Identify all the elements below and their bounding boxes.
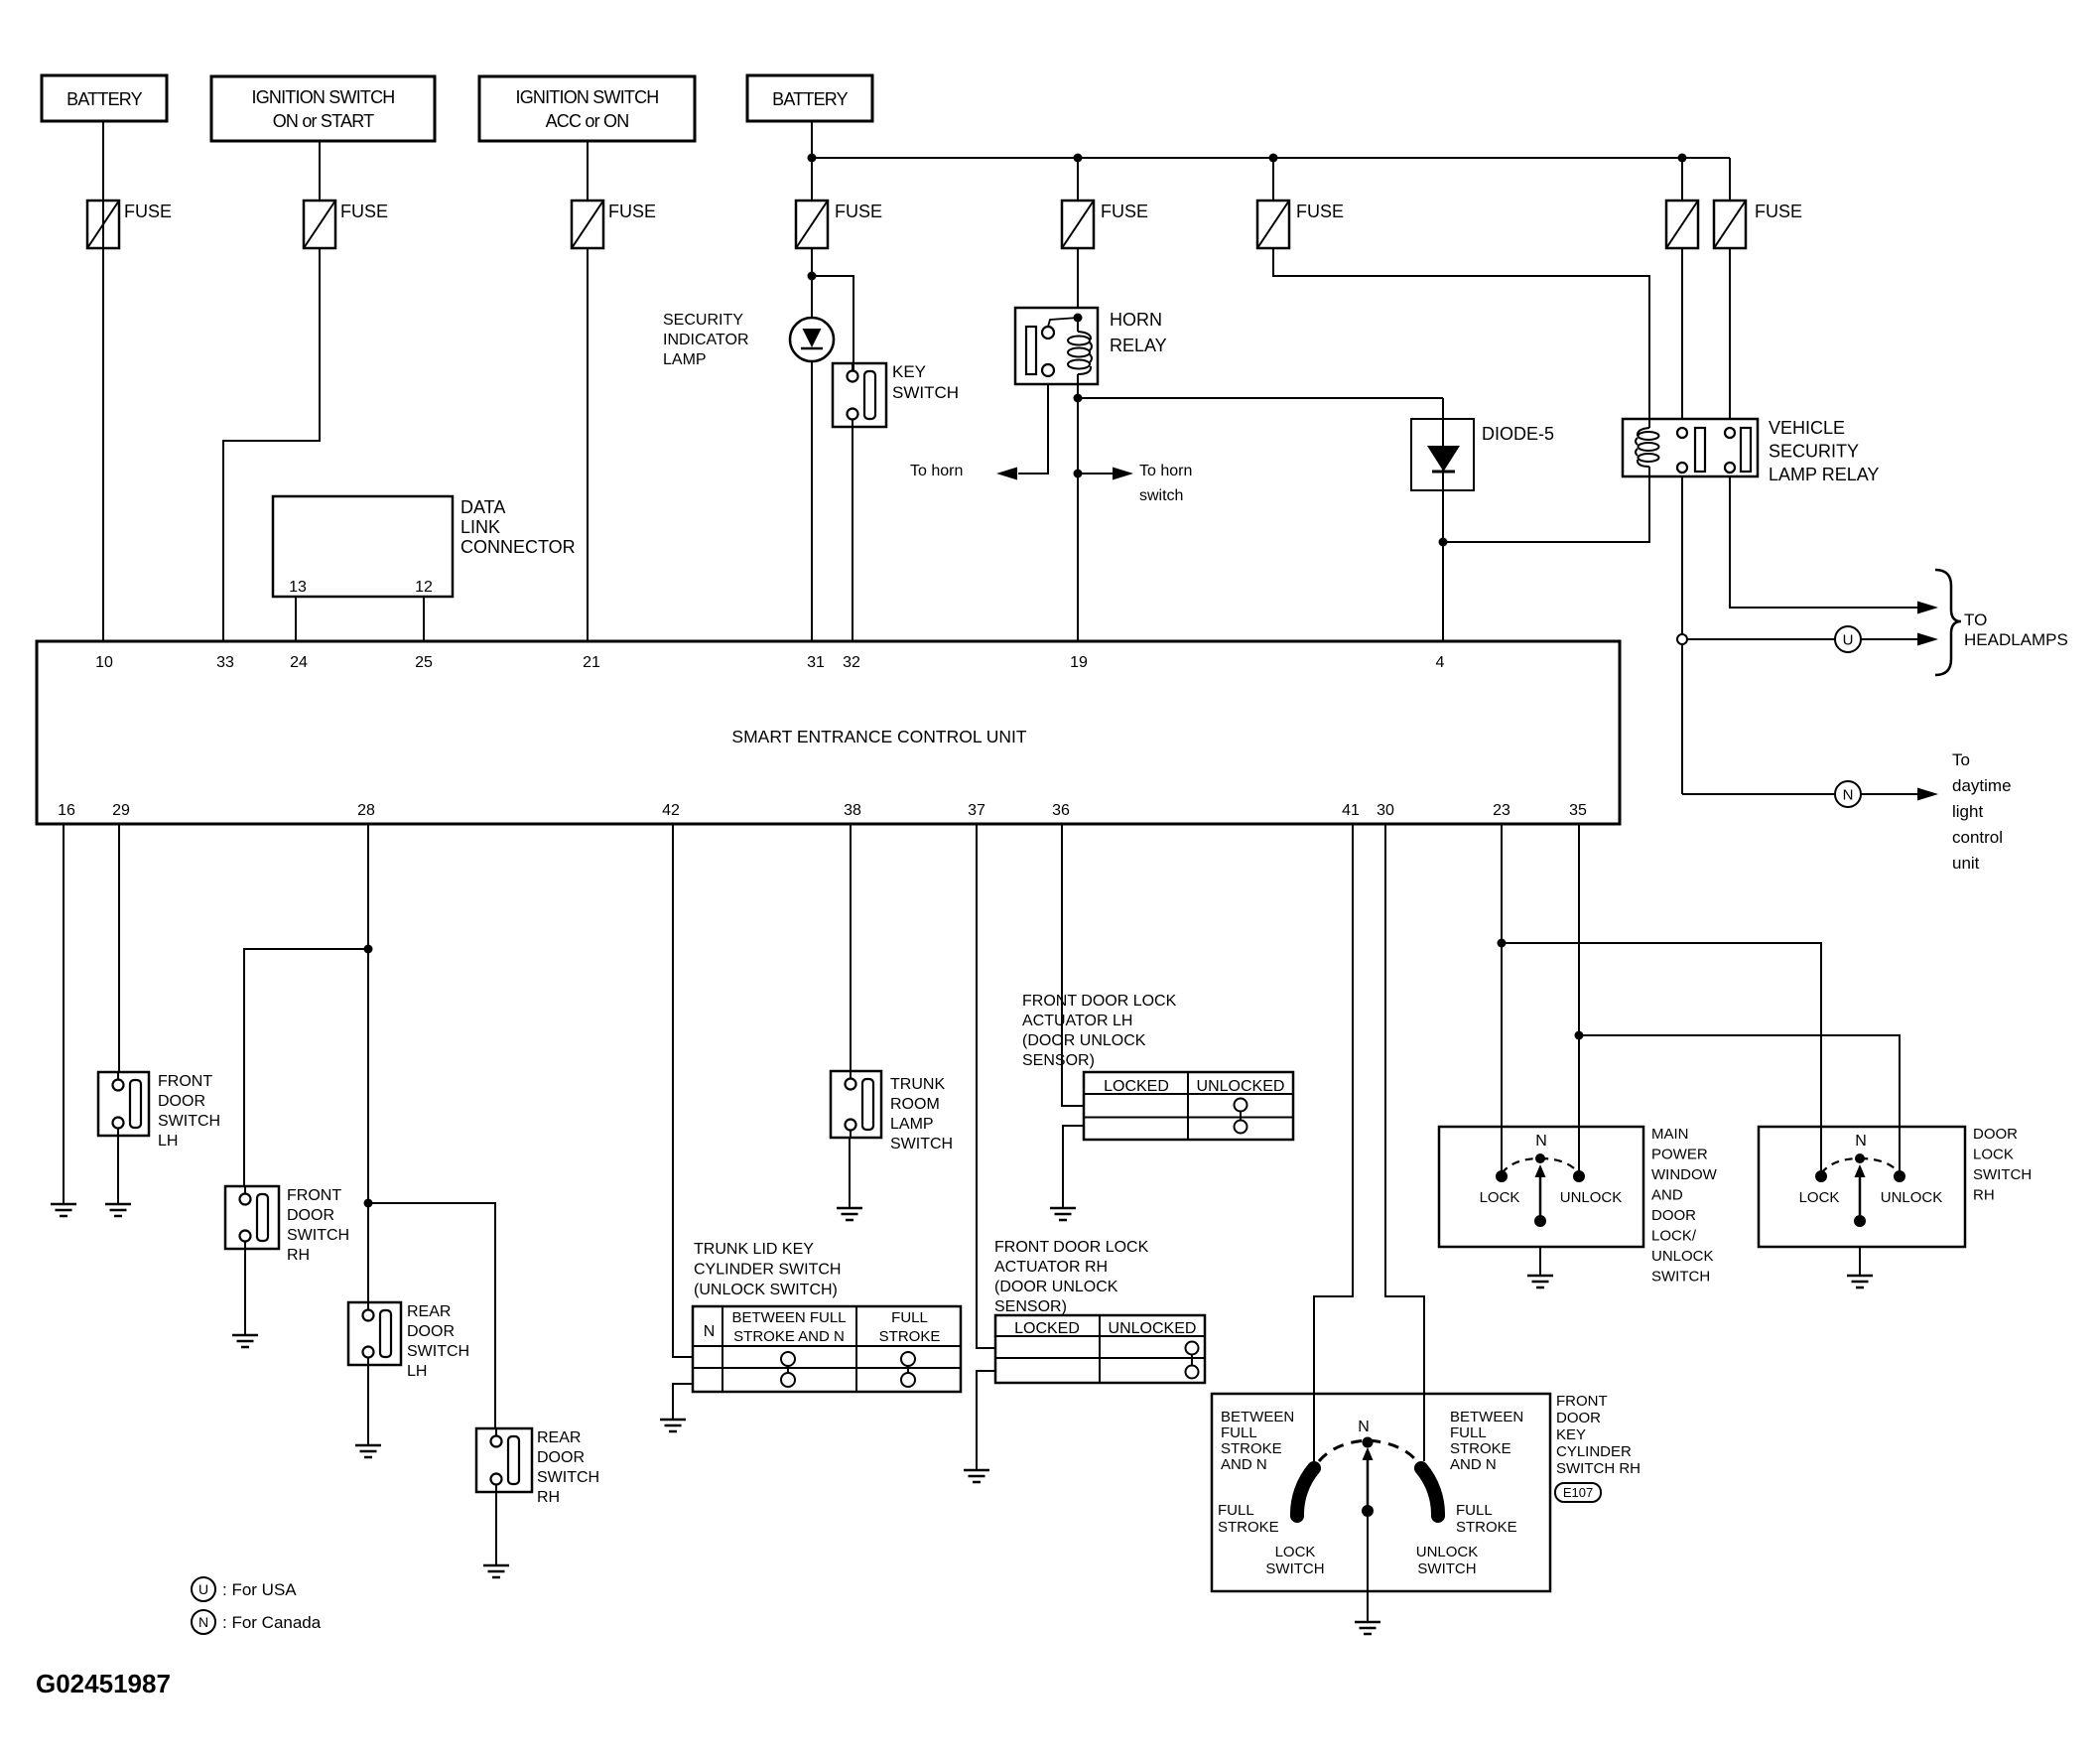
- wire node F to front door switch RH: [244, 949, 368, 1186]
- front door switch RH: [225, 1186, 279, 1249]
- svg-text:LH: LH: [158, 1133, 178, 1150]
- wire pin 41 into key cylinder (lock side): [1314, 824, 1353, 1461]
- wire N badge to arrow: [1861, 793, 1917, 795]
- svg-text:FRONT: FRONT: [158, 1073, 212, 1090]
- svg-text:MAIN: MAIN: [1651, 1126, 1689, 1143]
- wire relay contact1 to node E: [1681, 476, 1683, 634]
- svg-text:STROKE: STROKE: [1450, 1440, 1511, 1457]
- diode-5 D1 box: [1411, 419, 1474, 490]
- smart entrance control unit box: [37, 641, 1620, 824]
- wire horn relay contact to To-horn arrow: [1018, 384, 1048, 474]
- connector badge E107: [1555, 1483, 1601, 1502]
- node C junction (to horn switch tap): [1074, 470, 1083, 478]
- svg-text:LAMP RELAY: LAMP RELAY: [1769, 465, 1879, 484]
- svg-text:DOOR: DOOR: [537, 1449, 585, 1466]
- svg-text:38: 38: [844, 802, 861, 819]
- svg-text:10: 10: [95, 654, 113, 671]
- front door switch LH: [98, 1072, 149, 1136]
- ground (rear door switch LH): [355, 1444, 381, 1447]
- trunk lid key cylinder switch state table: [693, 1306, 961, 1392]
- svg-text:AND N: AND N: [1450, 1456, 1497, 1473]
- ground (key cylinder switch): [1355, 1621, 1380, 1624]
- svg-text:N: N: [704, 1323, 716, 1340]
- svg-text:FRONT DOOR LOCK: FRONT DOOR LOCK: [994, 1239, 1149, 1256]
- svg-text:E107: E107: [1563, 1485, 1593, 1500]
- svg-text:FUSE: FUSE: [1755, 202, 1802, 221]
- svg-text:G02451987: G02451987: [36, 1669, 171, 1698]
- svg-text:FUSE: FUSE: [835, 202, 882, 221]
- svg-text:HEADLAMPS: HEADLAMPS: [1964, 630, 2068, 649]
- svg-text:VEHICLE: VEHICLE: [1769, 418, 1845, 438]
- svg-text:BETWEEN: BETWEEN: [1221, 1409, 1294, 1425]
- trunk room lamp switch: [831, 1071, 881, 1138]
- selector arrow (key cylinder): [1367, 1459, 1370, 1506]
- node B junction (horn relay coil / diode feed): [1074, 394, 1083, 403]
- wire node E to U badge: [1687, 638, 1835, 640]
- svg-text:SWITCH: SWITCH: [287, 1227, 349, 1244]
- svg-text:RH: RH: [537, 1489, 560, 1506]
- contact pair trunk col3: [901, 1352, 915, 1366]
- svg-text:(DOOR UNLOCK: (DOOR UNLOCK: [1022, 1032, 1146, 1049]
- arrow to daytime light control unit: [1917, 788, 1938, 801]
- svg-text:37: 37: [968, 802, 985, 819]
- wire key cylinder common to ground: [1367, 1517, 1369, 1622]
- svg-text:DOOR: DOOR: [1973, 1126, 2018, 1143]
- svg-text:: For Canada: : For Canada: [222, 1613, 322, 1632]
- wire main power window switch to ground: [1539, 1247, 1541, 1276]
- fuse F7: [1666, 201, 1698, 248]
- svg-text:STROKE: STROKE: [1456, 1519, 1517, 1536]
- svg-text:N: N: [1843, 786, 1854, 803]
- svg-text:SWITCH: SWITCH: [1973, 1166, 2032, 1183]
- svg-text:BETWEEN: BETWEEN: [1450, 1409, 1523, 1425]
- wire battery1 to pin 10: [102, 121, 104, 641]
- svg-text:SWITCH: SWITCH: [158, 1113, 220, 1130]
- svg-text:DOOR: DOOR: [158, 1093, 205, 1110]
- wire key switch to pin 32: [852, 421, 853, 641]
- wire bus to fuse F5: [1077, 158, 1079, 201]
- wire bus to fuse F6: [1272, 158, 1274, 201]
- fuse F4: [796, 201, 828, 248]
- svg-text:CONNECTOR: CONNECTOR: [460, 537, 576, 557]
- ground (LH actuator): [1050, 1207, 1076, 1210]
- fuse F3: [572, 201, 603, 248]
- svg-text:DATA: DATA: [460, 497, 505, 517]
- svg-text:ON or START: ON or START: [273, 111, 374, 131]
- thick lock-stroke arc (left): [1297, 1468, 1314, 1516]
- svg-text:POWER: POWER: [1651, 1147, 1708, 1163]
- dashed travel arc (key cylinder): [1319, 1440, 1417, 1461]
- svg-text:LOCK: LOCK: [1275, 1544, 1316, 1560]
- svg-text:: For USA: : For USA: [222, 1580, 297, 1599]
- front door lock actuator LH state table: [1084, 1072, 1293, 1140]
- svg-text:FRONT: FRONT: [287, 1187, 341, 1204]
- svg-text:FULL: FULL: [1221, 1424, 1257, 1441]
- node N dot (key cylinder): [1363, 1437, 1374, 1448]
- svg-text:unit: unit: [1952, 854, 1980, 873]
- wire bus to fuse F4: [811, 158, 813, 201]
- node F junction (branch to front door switch RH): [364, 945, 373, 954]
- wire pin 29 to front door switch LH: [118, 824, 120, 1072]
- svg-text:FULL: FULL: [1456, 1502, 1493, 1519]
- door lock switch RH box: [1759, 1127, 1965, 1247]
- svg-text:IGNITION SWITCH: IGNITION SWITCH: [252, 87, 395, 107]
- svg-text:STROKE AND N: STROKE AND N: [733, 1328, 845, 1345]
- wire node E down to N line: [1681, 644, 1683, 794]
- key switch box: [833, 363, 886, 427]
- svg-text:FRONT: FRONT: [1556, 1393, 1608, 1410]
- svg-text:RELAY: RELAY: [1110, 336, 1167, 355]
- wire bus to fuse F7: [1681, 158, 1683, 201]
- svg-text:19: 19: [1070, 654, 1088, 671]
- ground (front door switch LH): [105, 1203, 131, 1206]
- fuse F1 (battery1 branch): [87, 201, 119, 248]
- badge N (Canada) on daytime line: [1835, 781, 1861, 807]
- svg-text:FUSE: FUSE: [1296, 202, 1344, 221]
- wire fuse F8 to relay contact 2: [1729, 248, 1731, 419]
- wire pin 36 to LH actuator row1: [1062, 824, 1084, 1106]
- svg-text:REAR: REAR: [537, 1429, 581, 1446]
- svg-text:LOCK/: LOCK/: [1651, 1228, 1697, 1245]
- security indicator lamp symbol: [790, 318, 834, 361]
- svg-text:IGNITION SWITCH: IGNITION SWITCH: [516, 87, 659, 107]
- svg-text:N: N: [198, 1614, 208, 1630]
- thick unlock-stroke arc (right): [1421, 1468, 1438, 1516]
- svg-text:CYLINDER SWITCH: CYLINDER SWITCH: [694, 1262, 841, 1279]
- ground (front door switch RH): [232, 1334, 258, 1337]
- ignition switch ACC or ON supply box: [479, 76, 695, 141]
- wire node H to door lock switch RH LOCK: [1502, 943, 1821, 1176]
- wire ignition ON/START to fuse F2: [319, 141, 321, 201]
- svg-text:TRUNK: TRUNK: [890, 1076, 945, 1093]
- wire node G to rear door switch RH: [368, 1203, 495, 1428]
- svg-text:LOCK: LOCK: [1973, 1147, 2014, 1163]
- svg-text:ACTUATOR RH: ACTUATOR RH: [994, 1259, 1108, 1276]
- wire pin 42 to trunk lid key cylinder switch row1: [673, 824, 693, 1357]
- svg-text:DOOR: DOOR: [287, 1207, 334, 1224]
- contact pair trunk col2: [781, 1352, 795, 1366]
- wire DLC pin13 to pin 24: [295, 597, 297, 641]
- svg-text:daytime: daytime: [1952, 776, 2012, 795]
- selector pivot dot (key cylinder): [1362, 1505, 1374, 1517]
- wire trunk lid switch row2 to ground: [673, 1384, 693, 1420]
- svg-text:(UNLOCK SWITCH): (UNLOCK SWITCH): [694, 1282, 838, 1298]
- svg-text:REAR: REAR: [407, 1303, 451, 1320]
- svg-text:KEY: KEY: [1556, 1426, 1586, 1443]
- wire pin 37 to RH actuator row1: [977, 824, 995, 1348]
- main power window and door lock/unlock switch box: [1439, 1127, 1643, 1247]
- contact pair RH actuator unlocked: [1186, 1342, 1199, 1355]
- svg-text:ACC or ON: ACC or ON: [546, 111, 629, 131]
- svg-text:FUSE: FUSE: [124, 202, 172, 221]
- wire U badge to arrow: [1861, 638, 1917, 640]
- arrow to headlamps (relay line): [1917, 602, 1938, 614]
- arrow to headlamps (U line): [1917, 633, 1938, 646]
- wire node I to door lock switch RH UNLOCK: [1579, 1035, 1900, 1176]
- fuse F2: [304, 201, 335, 248]
- svg-text:SMART ENTRANCE CONTROL UNIT: SMART ENTRANCE CONTROL UNIT: [731, 727, 1027, 746]
- svg-text:36: 36: [1052, 802, 1070, 819]
- fuse F6: [1257, 201, 1289, 248]
- legend badge U : For USA: [192, 1577, 215, 1601]
- legend badge N : For Canada: [192, 1610, 215, 1634]
- wire rear door switch RH to ground: [495, 1492, 497, 1565]
- svg-text:SENSOR): SENSOR): [994, 1298, 1067, 1315]
- svg-text:RH: RH: [287, 1247, 310, 1264]
- wire node C to horn-switch arrow: [1078, 473, 1114, 474]
- svg-text:FUSE: FUSE: [1101, 202, 1148, 221]
- bus junction at x1086: [1074, 154, 1083, 163]
- svg-text:FULL: FULL: [1218, 1502, 1254, 1519]
- svg-text:LOCKED: LOCKED: [1104, 1078, 1169, 1095]
- svg-text:DOOR: DOOR: [407, 1323, 455, 1340]
- badge U (USA) on headlamp line: [1835, 626, 1861, 652]
- wire fuse F3 to pin 21: [587, 248, 589, 641]
- wire pin 16 to ground: [63, 824, 65, 1204]
- svg-text:FULL: FULL: [891, 1309, 928, 1326]
- svg-text:To horn: To horn: [910, 463, 963, 479]
- power bus line: [812, 157, 1730, 159]
- svg-text:UNLOCK: UNLOCK: [1560, 1189, 1623, 1206]
- brace for TO HEADLAMPS: [1935, 570, 1961, 675]
- svg-text:STROKE: STROKE: [1218, 1519, 1279, 1536]
- svg-text:SENSOR): SENSOR): [1022, 1052, 1095, 1069]
- svg-text:BATTERY: BATTERY: [66, 89, 143, 109]
- svg-text:42: 42: [662, 802, 680, 819]
- svg-text:23: 23: [1493, 802, 1510, 819]
- svg-text:12: 12: [415, 579, 433, 596]
- arrow to horn switch (right): [1113, 468, 1133, 480]
- wire relay contact2 to headlamps arrow: [1730, 476, 1917, 608]
- wire DLC pin12 to pin 25: [423, 597, 425, 641]
- bus junction at x1283: [1269, 154, 1278, 163]
- ignition switch ON or START supply box: [211, 76, 435, 141]
- svg-text:LOCK: LOCK: [1799, 1189, 1840, 1206]
- front door key cylinder switch RH box: [1212, 1394, 1550, 1591]
- svg-text:N: N: [1535, 1133, 1547, 1150]
- ground (trunk room lamp switch): [837, 1207, 862, 1210]
- svg-text:16: 16: [58, 802, 75, 819]
- svg-text:30: 30: [1377, 802, 1394, 819]
- svg-text:RH: RH: [1973, 1187, 1995, 1204]
- horn relay U2: [1015, 308, 1098, 384]
- data link connector box: [273, 496, 453, 597]
- svg-text:29: 29: [112, 802, 130, 819]
- svg-text:SWITCH: SWITCH: [1651, 1269, 1710, 1286]
- svg-text:FRONT DOOR LOCK: FRONT DOOR LOCK: [1022, 993, 1177, 1010]
- wire front door switch RH to ground: [244, 1249, 246, 1335]
- wire horn relay coil to node B: [1077, 384, 1079, 398]
- svg-text:SWITCH: SWITCH: [537, 1469, 599, 1486]
- svg-text:WINDOW: WINDOW: [1651, 1166, 1718, 1183]
- svg-text:SWITCH RH: SWITCH RH: [1556, 1460, 1641, 1477]
- wire fuse F4 down to node A: [811, 248, 813, 276]
- svg-text:SWITCH: SWITCH: [892, 383, 959, 402]
- wire pin 35 to main power window switch UNLOCK: [1578, 824, 1580, 1176]
- svg-text:33: 33: [216, 654, 234, 671]
- svg-text:light: light: [1952, 802, 1983, 821]
- svg-text:LAMP: LAMP: [663, 351, 707, 368]
- ground (rear door switch RH): [483, 1564, 509, 1567]
- svg-text:13: 13: [289, 579, 307, 596]
- wire ignition ACC/ON to fuse F3: [587, 141, 589, 201]
- svg-text:SWITCH: SWITCH: [1417, 1560, 1476, 1577]
- svg-text:LAMP: LAMP: [890, 1116, 934, 1133]
- wire relay coil return to node D: [1443, 476, 1649, 542]
- svg-text:AND N: AND N: [1221, 1456, 1267, 1473]
- bus junction at x818: [808, 154, 817, 163]
- svg-text:FUSE: FUSE: [340, 202, 388, 221]
- svg-text:To: To: [1952, 750, 1970, 769]
- bus junction at x1695: [1678, 154, 1687, 163]
- wire LH actuator row2 to ground: [1063, 1126, 1084, 1208]
- wire fuse F6 to vehicle security lamp relay coil: [1273, 248, 1649, 419]
- svg-text:STROKE: STROKE: [879, 1328, 941, 1345]
- wire node B to diode-5: [1078, 397, 1443, 399]
- svg-text:SECURITY: SECURITY: [1769, 442, 1859, 462]
- battery 2 (center) supply box: [747, 75, 872, 121]
- vehicle security lamp relay U3: [1623, 419, 1758, 476]
- svg-text:UNLOCK: UNLOCK: [1651, 1248, 1714, 1265]
- svg-text:SWITCH: SWITCH: [1265, 1560, 1324, 1577]
- svg-text:switch: switch: [1139, 487, 1183, 504]
- svg-text:TO: TO: [1964, 610, 1987, 629]
- svg-text:FULL: FULL: [1450, 1424, 1487, 1441]
- svg-text:U: U: [198, 1581, 208, 1597]
- svg-text:N: N: [1855, 1133, 1867, 1150]
- wire into diode-5 from node B: [1442, 398, 1444, 641]
- wire RH actuator row2 to ground: [977, 1371, 995, 1470]
- wire front door switch LH to ground: [117, 1136, 119, 1204]
- rear door switch LH: [348, 1302, 401, 1365]
- svg-text:21: 21: [583, 654, 600, 671]
- svg-text:SECURITY: SECURITY: [663, 312, 743, 329]
- svg-text:HORN: HORN: [1110, 310, 1162, 330]
- fuse F8: [1714, 201, 1746, 248]
- wire fuse F2 to pin 33 (jog left): [223, 248, 320, 641]
- svg-text:BATTERY: BATTERY: [772, 89, 849, 109]
- svg-text:LOCKED: LOCKED: [1014, 1320, 1080, 1337]
- svg-text:BETWEEN FULL: BETWEEN FULL: [731, 1309, 846, 1326]
- svg-text:STROKE: STROKE: [1221, 1440, 1282, 1457]
- svg-text:UNLOCKED: UNLOCKED: [1109, 1320, 1197, 1337]
- svg-text:AND: AND: [1651, 1187, 1683, 1204]
- svg-text:CYLINDER: CYLINDER: [1556, 1443, 1632, 1460]
- svg-text:INDICATOR: INDICATOR: [663, 332, 749, 348]
- svg-text:ACTUATOR LH: ACTUATOR LH: [1022, 1013, 1132, 1029]
- wire fuse F7 to relay contact 1: [1681, 248, 1683, 419]
- wire node A to key switch: [812, 276, 853, 372]
- svg-text:35: 35: [1569, 802, 1587, 819]
- svg-text:FUSE: FUSE: [608, 202, 656, 221]
- svg-text:DIODE-5: DIODE-5: [1482, 424, 1554, 444]
- wire node B down to node C: [1077, 398, 1079, 474]
- node G junction (branch to rear door switch RH): [364, 1199, 373, 1208]
- node A junction (fuse F4 / lamp / key switch): [808, 272, 817, 281]
- wire bus end to fuse F8: [1729, 158, 1731, 201]
- battery 1 (left) supply box: [42, 75, 167, 121]
- wire node C to pin 19: [1077, 474, 1079, 641]
- front door lock actuator RH state table: [995, 1315, 1205, 1383]
- svg-text:SWITCH: SWITCH: [890, 1136, 953, 1152]
- svg-text:32: 32: [843, 654, 860, 671]
- node I junction (pin35 branch): [1575, 1031, 1584, 1040]
- svg-text:24: 24: [290, 654, 308, 671]
- contact pair LH actuator unlocked: [1235, 1099, 1247, 1112]
- svg-text:(DOOR UNLOCK: (DOOR UNLOCK: [994, 1279, 1118, 1295]
- svg-text:LINK: LINK: [460, 517, 500, 537]
- svg-text:KEY: KEY: [892, 362, 926, 381]
- ground (RH actuator): [964, 1469, 989, 1472]
- svg-text:UNLOCKED: UNLOCKED: [1197, 1078, 1285, 1095]
- arrow to horn (left): [996, 468, 1017, 480]
- fuse F5: [1062, 201, 1094, 248]
- svg-text:UNLOCK: UNLOCK: [1881, 1189, 1943, 1206]
- svg-text:LOCK: LOCK: [1480, 1189, 1520, 1206]
- node H junction (pin23 branch): [1498, 939, 1507, 948]
- svg-text:41: 41: [1342, 802, 1360, 819]
- wire fuse F5 to horn relay: [1077, 248, 1079, 309]
- wire pin 23 to main power window switch LOCK: [1501, 824, 1503, 1176]
- wire node A to security lamp: [811, 276, 813, 319]
- node E open-circle junction: [1677, 634, 1687, 644]
- svg-text:control: control: [1952, 828, 2003, 847]
- ground (trunk lid key cylinder switch): [660, 1419, 686, 1422]
- svg-text:TRUNK LID KEY: TRUNK LID KEY: [694, 1241, 814, 1258]
- rear door switch RH: [476, 1428, 532, 1492]
- wire N line to N badge: [1682, 793, 1835, 795]
- ground (main power window switch): [1527, 1275, 1553, 1278]
- wire rear door switch LH to ground: [367, 1365, 369, 1445]
- svg-text:ROOM: ROOM: [890, 1096, 940, 1113]
- svg-text:LH: LH: [407, 1363, 427, 1380]
- svg-text:DOOR: DOOR: [1556, 1410, 1601, 1426]
- svg-text:DOOR: DOOR: [1651, 1207, 1696, 1224]
- wire pin 30 into key cylinder (unlock side): [1385, 824, 1424, 1461]
- ground (pin 16): [51, 1203, 76, 1206]
- node D junction (diode / relay coil return / pin 4): [1439, 538, 1448, 547]
- svg-text:25: 25: [415, 654, 433, 671]
- svg-text:N: N: [1358, 1419, 1370, 1435]
- svg-text:28: 28: [357, 802, 375, 819]
- svg-text:31: 31: [807, 654, 825, 671]
- wire pin 28 down to rear door switch LH: [367, 824, 369, 1302]
- svg-text:UNLOCK: UNLOCK: [1416, 1544, 1479, 1560]
- wire trunk room lamp switch to ground: [849, 1138, 851, 1208]
- wire door lock switch RH to ground: [1859, 1247, 1861, 1276]
- svg-text:4: 4: [1436, 654, 1445, 671]
- ground (door lock switch RH): [1847, 1275, 1873, 1278]
- wire pin 38 to trunk room lamp switch: [850, 824, 852, 1072]
- wire security lamp to pin 31: [811, 361, 813, 641]
- svg-text:U: U: [1843, 631, 1854, 648]
- svg-text:To horn: To horn: [1139, 463, 1192, 479]
- wire battery2 down to bus: [811, 121, 813, 158]
- svg-text:SWITCH: SWITCH: [407, 1343, 469, 1360]
